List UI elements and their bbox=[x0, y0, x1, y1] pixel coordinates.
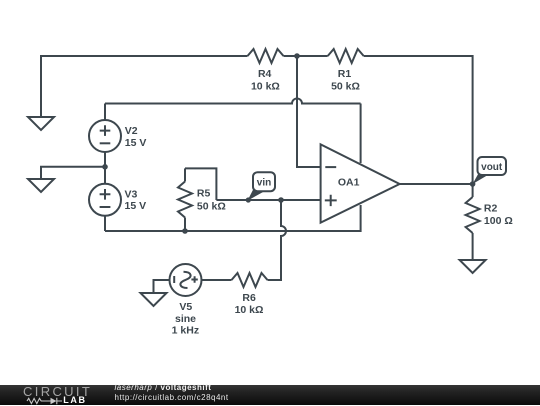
footer text bbox=[115, 384, 212, 392]
svg-text:10 kΩ: 10 kΩ bbox=[251, 80, 280, 92]
svg-text:V5: V5 bbox=[179, 301, 192, 313]
svg-text:sine: sine bbox=[175, 313, 196, 325]
CircuitLab logo bbox=[23, 385, 92, 398]
svg-text:R5: R5 bbox=[197, 188, 211, 200]
op-amp OA1 bbox=[321, 144, 400, 222]
wire op-amp V+ lead bbox=[360, 104, 362, 164]
svg-text:R6: R6 bbox=[242, 292, 256, 304]
svg-text:vout: vout bbox=[481, 162, 503, 173]
svg-text:R1: R1 bbox=[338, 68, 352, 80]
label V2 value bbox=[125, 125, 147, 149]
svg-text:R2: R2 bbox=[484, 203, 498, 215]
wire V5 to R6 bbox=[202, 279, 232, 281]
svg-text:R4: R4 bbox=[258, 68, 272, 80]
svg-text:15 V: 15 V bbox=[125, 137, 147, 149]
label V5 value bbox=[172, 301, 199, 336]
resistor R1 bbox=[328, 49, 364, 63]
wire R1 to feedback corner down to output node bbox=[364, 56, 473, 184]
label R2 value bbox=[484, 203, 513, 227]
svg-text:V3: V3 bbox=[125, 188, 138, 200]
flag vout bbox=[473, 157, 506, 184]
wire plus-input net bbox=[216, 199, 320, 201]
wire junction down to op-amp minus input bbox=[297, 56, 321, 167]
voltage source V5 (sine) bbox=[154, 264, 202, 296]
ground (top-left) bbox=[28, 117, 54, 130]
resistor R5 with leads bbox=[178, 168, 216, 231]
resistor R4 bbox=[248, 49, 284, 63]
flag vin bbox=[246, 172, 275, 202]
node R5 bottom junction bbox=[182, 228, 188, 234]
voltage source V3 bbox=[89, 167, 121, 231]
wire vertical down with hop over y=231 bbox=[268, 200, 287, 280]
svg-text:V2: V2 bbox=[125, 125, 138, 137]
svg-text:50 kΩ: 50 kΩ bbox=[197, 200, 226, 212]
node vin junction bbox=[278, 197, 284, 203]
svg-text:50 kΩ: 50 kΩ bbox=[331, 80, 360, 92]
svg-text:15 V: 15 V bbox=[125, 200, 147, 212]
resistor R6 bbox=[232, 273, 268, 287]
wire R4 to R1 bbox=[284, 55, 328, 57]
ground (mid-left) bbox=[28, 179, 54, 192]
node output junction bbox=[470, 181, 476, 187]
node V2/V3 midpoint bbox=[102, 164, 108, 170]
ground (V5) bbox=[141, 293, 167, 306]
svg-text:10 kΩ: 10 kΩ bbox=[235, 304, 264, 316]
node junction R4/R1 bbox=[294, 53, 300, 59]
label R5 value bbox=[197, 188, 226, 213]
footer bar bbox=[0, 385, 540, 405]
ground (R2) bbox=[460, 260, 486, 273]
wire V2 top rail with hop over x=297 bbox=[105, 99, 361, 104]
label R6 value bbox=[235, 292, 264, 316]
label R1 value bbox=[331, 68, 360, 92]
label R4 value bbox=[251, 68, 280, 92]
svg-text:1 kHz: 1 kHz bbox=[172, 324, 199, 336]
wire V3 bottom rail to op-amp V- lead bbox=[105, 205, 361, 231]
voltage source V2 bbox=[89, 104, 121, 167]
resistor R2 with leads bbox=[466, 184, 480, 260]
label V3 value bbox=[125, 188, 147, 212]
op-amp minus symbol bbox=[325, 166, 336, 168]
svg-text:vin: vin bbox=[257, 177, 271, 188]
wire midpoint to ground bbox=[41, 167, 105, 179]
wire op-amp output bbox=[400, 183, 473, 185]
wire top net: left corner to R4 bbox=[41, 56, 248, 117]
op-amp plus symbol bbox=[325, 195, 337, 206]
svg-text:OA1: OA1 bbox=[338, 176, 360, 188]
svg-text:100 Ω: 100 Ω bbox=[484, 215, 513, 227]
